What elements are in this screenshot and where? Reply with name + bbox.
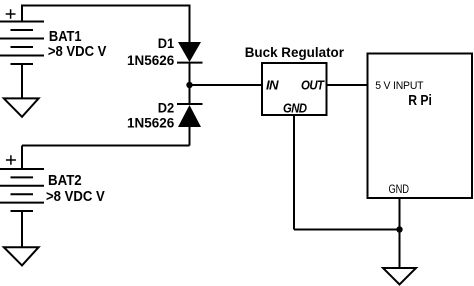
svg-text:1N5626: 1N5626 [127,116,175,131]
svg-text:OUT: OUT [301,77,325,92]
svg-text:BAT2: BAT2 [48,173,82,189]
svg-text:R Pi: R Pi [408,93,432,109]
svg-text:GND: GND [389,182,410,196]
svg-text:GND: GND [283,100,308,115]
svg-text:IN: IN [266,77,279,92]
svg-text:D2: D2 [158,101,175,116]
svg-text:>8 VDC V: >8 VDC V [48,44,107,60]
svg-text:D1: D1 [158,36,175,51]
svg-text:BAT1: BAT1 [49,29,82,45]
svg-text:1N5626: 1N5626 [127,53,175,68]
svg-text:5 V INPUT: 5 V INPUT [375,80,424,92]
svg-text:>8 VDC V: >8 VDC V [46,189,105,205]
svg-text:Buck Regulator: Buck Regulator [245,45,345,60]
